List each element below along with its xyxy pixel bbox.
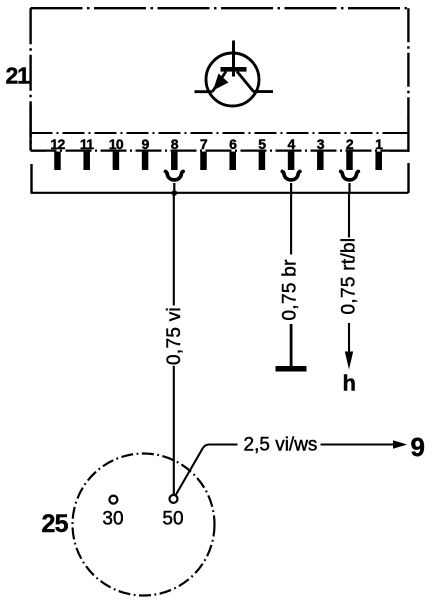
pin 4 — [288, 136, 296, 170]
terminal 50 circle — [170, 495, 178, 503]
socket stem at pin 4 — [290, 183, 292, 194]
svg-text:0,75 vi: 0,75 vi — [164, 307, 185, 365]
transistor left lead — [195, 90, 213, 93]
pin 2 — [346, 136, 354, 170]
socket at pin 8 — [166, 171, 184, 180]
junction dot at pin 8 wire crossing — [172, 190, 178, 196]
starter 25 dash-dot circle — [73, 454, 215, 596]
socket stem at pin 2 — [348, 183, 350, 194]
svg-text:1: 1 — [375, 136, 383, 152]
svg-text:25: 25 — [42, 510, 69, 538]
svg-text:11: 11 — [80, 136, 94, 152]
connector strip inner dash-dot line — [31, 132, 409, 134]
pin 10 — [109, 136, 124, 170]
svg-text:4: 4 — [288, 136, 296, 152]
pin 5 — [258, 136, 266, 170]
svg-text:9: 9 — [411, 432, 425, 462]
socket at pin 2 — [341, 171, 359, 180]
control unit 21 dash-dot box right border — [407, 8, 409, 120]
ground symbol — [276, 366, 307, 372]
pin 12 — [50, 136, 65, 170]
connector housing left edge — [30, 164, 32, 193]
control unit 21 box bottom dash-dot border — [31, 150, 409, 152]
arrow to 9 — [393, 440, 407, 449]
pin 3 — [317, 136, 325, 170]
wire 0,75 br upper segment — [290, 193, 292, 255]
transistor base bar — [221, 67, 247, 72]
connector housing right edge — [407, 163, 409, 193]
wire 2,5 vi/ws riser from terminal 50 — [176, 445, 238, 495]
wire 0,75 br lower segment (ground stem) — [290, 324, 293, 366]
svg-text:30: 30 — [102, 509, 123, 530]
svg-text:7: 7 — [200, 136, 208, 152]
wire 2,5 vi/ws horizontal segment — [321, 443, 396, 445]
wire 0,75 rt/bl upper segment — [348, 193, 350, 238]
pin 8 — [171, 136, 179, 170]
transistor base top lead — [232, 41, 235, 77]
transistor emitter arrow — [213, 74, 229, 91]
svg-text:12: 12 — [50, 136, 65, 152]
transistor collector leg — [237, 72, 254, 92]
control unit 21 box right border solid segment — [407, 119, 409, 152]
wire 0,75 vi lower segment — [173, 366, 175, 494]
svg-text:8: 8 — [171, 136, 179, 152]
svg-text:h: h — [343, 371, 356, 396]
wire 0,75 rt/bl lower segment — [348, 323, 350, 353]
svg-text:0,75 br: 0,75 br — [279, 259, 300, 321]
svg-text:6: 6 — [229, 136, 237, 152]
transistor circle — [206, 53, 259, 106]
svg-text:21: 21 — [6, 63, 31, 89]
arrow to h — [345, 352, 353, 370]
pin 11 — [80, 136, 94, 170]
socket stem at pin 8 — [173, 183, 175, 194]
svg-text:0,75 rt/bl: 0,75 rt/bl — [338, 238, 359, 315]
transistor emitter leg — [213, 72, 227, 92]
svg-text:5: 5 — [258, 136, 266, 152]
wire 0,75 vi upper segment — [173, 193, 175, 306]
control unit 21 dash-dot box top border — [31, 7, 409, 9]
svg-text:2,5 vi/ws: 2,5 vi/ws — [244, 435, 318, 456]
pin 6 — [229, 136, 237, 170]
connector housing bottom edge — [31, 192, 409, 194]
transistor right lead — [253, 90, 273, 93]
terminal 30 circle — [109, 496, 117, 504]
control unit 21 dash-dot box left border — [29, 8, 31, 150]
svg-text:50: 50 — [162, 509, 183, 530]
socket at pin 4 — [282, 171, 300, 180]
svg-text:10: 10 — [109, 136, 124, 152]
pin 7 — [200, 136, 208, 170]
svg-text:9: 9 — [142, 136, 150, 152]
pin 1 — [375, 136, 383, 170]
svg-text:2: 2 — [346, 136, 354, 152]
svg-text:3: 3 — [317, 136, 325, 152]
pin 9 — [142, 136, 150, 170]
